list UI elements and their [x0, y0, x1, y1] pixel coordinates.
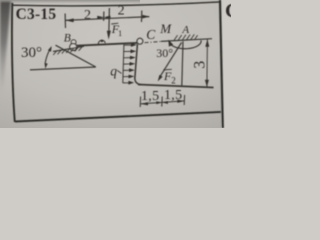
svg-text:1: 1	[118, 28, 122, 38]
svg-text:A: A	[181, 24, 189, 36]
svg-text:M: M	[159, 21, 172, 36]
svg-text:B: B	[64, 32, 71, 44]
svg-text:1,5: 1,5	[141, 89, 159, 104]
svg-text:1,5: 1,5	[164, 88, 182, 103]
svg-text:2: 2	[84, 8, 91, 23]
svg-text:2: 2	[118, 3, 125, 18]
svg-text:C3-15: C3-15	[16, 6, 57, 23]
svg-text:C: C	[146, 27, 156, 42]
svg-text:3: 3	[192, 61, 209, 69]
svg-text:q: q	[110, 63, 117, 78]
svg-text:30°: 30°	[156, 46, 173, 60]
svg-text:30°: 30°	[21, 45, 42, 61]
svg-text:C: C	[225, 0, 231, 22]
svg-text:2: 2	[171, 75, 176, 85]
